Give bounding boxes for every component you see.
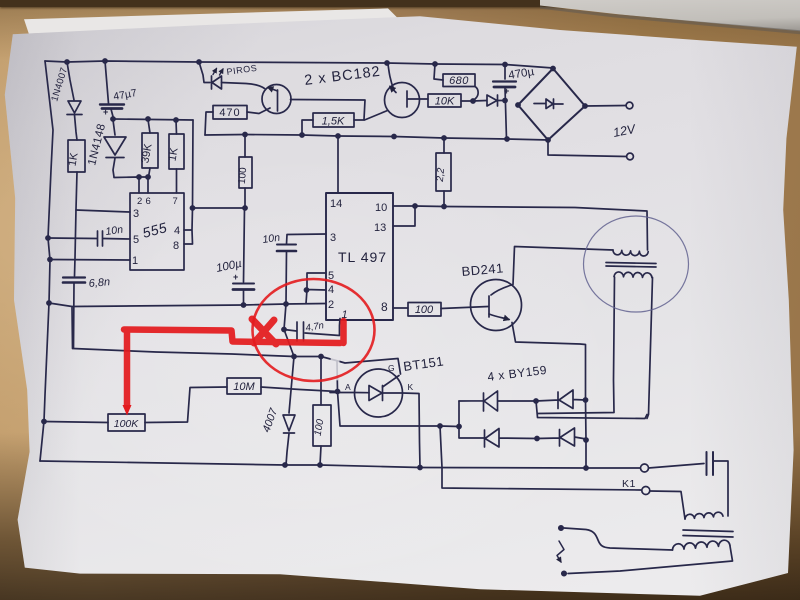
svg-text:3: 3: [133, 208, 139, 220]
svg-text:39K: 39K: [139, 142, 154, 164]
svg-text:1K: 1K: [66, 151, 80, 167]
svg-text:4007: 4007: [261, 406, 281, 434]
svg-text:8: 8: [173, 240, 179, 252]
svg-text:10n: 10n: [262, 232, 281, 246]
svg-text:100: 100: [415, 304, 434, 316]
svg-text:PIROS: PIROS: [226, 63, 258, 77]
svg-text:1K: 1K: [166, 146, 180, 162]
svg-text:5: 5: [133, 234, 139, 246]
svg-text:+: +: [103, 107, 108, 117]
svg-text:47µ7: 47µ7: [112, 87, 137, 103]
svg-text:K: K: [408, 382, 414, 392]
svg-text:13: 13: [374, 222, 386, 234]
svg-text:6: 6: [146, 196, 151, 207]
svg-text:555: 555: [141, 219, 169, 241]
svg-text:470µ: 470µ: [508, 66, 536, 82]
svg-text:10K: 10K: [435, 96, 455, 108]
svg-text:2: 2: [137, 196, 142, 207]
svg-text:7: 7: [173, 196, 178, 207]
svg-text:100: 100: [313, 418, 327, 437]
svg-text:1,5K: 1,5K: [322, 116, 345, 128]
svg-text:6,8n: 6,8n: [88, 276, 110, 290]
svg-text:BT151: BT151: [402, 353, 445, 374]
svg-text:3: 3: [330, 232, 336, 244]
svg-text:TL 497: TL 497: [338, 249, 387, 265]
svg-text:G: G: [388, 363, 395, 373]
svg-text:10M: 10M: [233, 381, 255, 393]
svg-text:10n: 10n: [105, 224, 124, 238]
svg-text:4,7n: 4,7n: [305, 320, 325, 334]
svg-text:14: 14: [330, 198, 342, 210]
svg-text:+: +: [504, 86, 509, 96]
svg-text:4: 4: [328, 284, 334, 296]
svg-text:2,2: 2,2: [435, 167, 447, 183]
svg-text:4 x BY159: 4 x BY159: [487, 363, 548, 384]
svg-text:BD241: BD241: [461, 260, 504, 279]
svg-text:100: 100: [237, 167, 249, 185]
svg-text:4: 4: [174, 225, 180, 237]
svg-text:100µ: 100µ: [215, 258, 243, 275]
svg-text:8: 8: [381, 300, 388, 314]
svg-text:2: 2: [328, 299, 334, 311]
svg-text:1N4007: 1N4007: [49, 66, 70, 103]
svg-text:+: +: [233, 272, 238, 282]
svg-text:1N4148: 1N4148: [86, 122, 108, 166]
svg-text:12V: 12V: [612, 122, 638, 140]
svg-text:A: A: [345, 382, 351, 392]
svg-text:10: 10: [375, 202, 387, 214]
svg-text:K1: K1: [622, 478, 636, 490]
svg-text:1: 1: [132, 255, 138, 267]
svg-text:100K: 100K: [114, 418, 140, 430]
svg-text:470: 470: [219, 107, 240, 119]
svg-text:2 x BC182: 2 x BC182: [304, 64, 382, 89]
svg-text:680: 680: [449, 75, 469, 87]
